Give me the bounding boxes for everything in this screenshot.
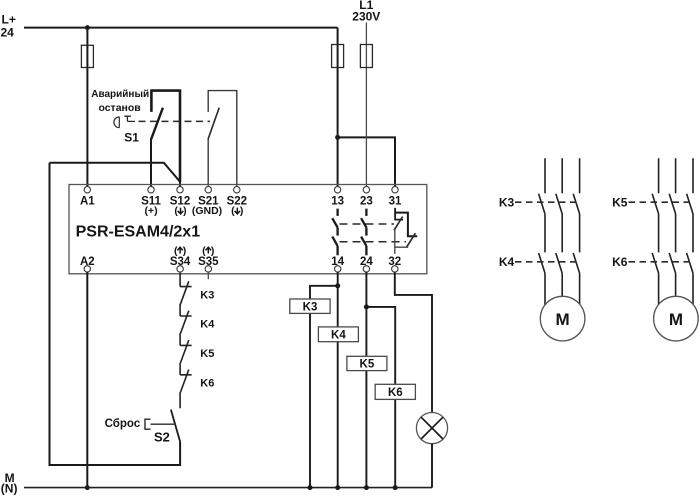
switch S1 contact-1 blade bbox=[151, 108, 163, 140]
node bus junction K5 bbox=[364, 485, 369, 490]
feedback contact K4 (NC) bbox=[180, 304, 192, 334]
motor M2 bbox=[654, 296, 699, 341]
terminal S12 bbox=[177, 187, 183, 193]
svg-text:24: 24 bbox=[360, 256, 373, 268]
node junction 14 branch bbox=[335, 283, 340, 288]
svg-text:23: 23 bbox=[360, 196, 373, 208]
terminal 32 bbox=[392, 266, 398, 272]
node junction A2 on bus bbox=[85, 485, 90, 490]
wire 14 drop bbox=[337, 272, 339, 286]
node junction feeding terminal 31 bbox=[335, 135, 340, 140]
relay contact 31-32 bypass path bbox=[395, 213, 417, 237]
svg-text:24: 24 bbox=[1, 25, 15, 39]
wire M(N) bus bbox=[24, 487, 432, 489]
svg-text:S2: S2 bbox=[154, 430, 170, 445]
wire 32 inner horizontal bbox=[395, 246, 408, 248]
svg-text:Сброс: Сброс bbox=[105, 418, 141, 430]
wire 13 supply drop bbox=[337, 28, 339, 187]
wire K3 dashed link bbox=[515, 201, 579, 203]
wire A1 supply drop bbox=[86, 28, 88, 187]
svg-text:S35: S35 bbox=[198, 256, 219, 268]
wire contact link dashed row 1 bbox=[340, 223, 395, 225]
wire 24 drop through coil K5 to bus bbox=[365, 272, 367, 488]
svg-text:230V: 230V bbox=[352, 10, 380, 24]
svg-text:K5: K5 bbox=[200, 348, 214, 360]
node bus junction K3 bbox=[308, 485, 313, 490]
wire L1 230V drop to terminal 23 bbox=[365, 23, 367, 187]
svg-text:S1: S1 bbox=[124, 131, 139, 145]
switch S2 blade bbox=[171, 410, 180, 442]
coil K3 bbox=[290, 299, 330, 313]
relay contact 31-32 blade 1 bbox=[394, 217, 403, 231]
wire 32 inner vertical bbox=[394, 230, 396, 254]
node bus junction K6 bbox=[393, 485, 398, 490]
svg-text:PSR-ESAM4/2x1: PSR-ESAM4/2x1 bbox=[76, 223, 201, 240]
relay contact 31-32 blade 2 bbox=[407, 233, 416, 247]
coil K5 bbox=[347, 356, 387, 370]
wire lamp to bus bbox=[431, 444, 433, 488]
terminal S35 bbox=[205, 266, 211, 272]
svg-text:A1: A1 bbox=[80, 196, 95, 208]
node bus junction K4 bbox=[335, 485, 340, 490]
svg-text:K6: K6 bbox=[388, 387, 403, 399]
svg-text:31: 31 bbox=[389, 196, 402, 208]
wire K6 dashed link bbox=[629, 261, 693, 263]
svg-text:A2: A2 bbox=[80, 256, 95, 268]
switch S2 actuator bbox=[145, 419, 174, 429]
lamp H1 bbox=[416, 413, 447, 444]
terminal S34 bbox=[177, 266, 183, 272]
wire L+ supply bus bbox=[24, 27, 338, 29]
svg-text:K6: K6 bbox=[200, 378, 214, 390]
svg-text:13: 13 bbox=[331, 196, 344, 208]
wire branch to terminal 31 bbox=[338, 137, 395, 186]
svg-text:M: M bbox=[556, 310, 570, 329]
switch S1 contact-2 blade bbox=[208, 108, 219, 140]
svg-text:K5: K5 bbox=[360, 359, 375, 371]
svg-text:(+): (+) bbox=[144, 205, 157, 217]
wire 32 to lamp bbox=[395, 272, 432, 413]
svg-text:M: M bbox=[669, 310, 683, 329]
svg-text:останов: останов bbox=[98, 102, 141, 114]
emergency stop mushroom head S1 bbox=[114, 117, 119, 128]
feedback contact K5 (NC) bbox=[180, 333, 192, 363]
wire S1 mechanical link (dashed) bbox=[139, 120, 211, 122]
wire branch to coil K3 bbox=[310, 286, 338, 488]
svg-text:S34: S34 bbox=[170, 256, 191, 268]
wire reset-loop feed into S12 (diagonal) bbox=[50, 163, 181, 187]
wire K4 dashed link bbox=[515, 261, 579, 263]
wire S2 return loop bbox=[50, 163, 181, 465]
motor branch 1 phase lines with contacts K3/K4 bbox=[539, 158, 580, 330]
terminal 14 bbox=[335, 266, 341, 272]
svg-text:14: 14 bbox=[331, 256, 344, 268]
relay contact 23-24 bbox=[361, 209, 366, 256]
terminal 23 bbox=[363, 187, 369, 193]
svg-text:(GND): (GND) bbox=[192, 205, 222, 217]
svg-text:K4: K4 bbox=[331, 330, 346, 342]
wire contact link dashed row 2 bbox=[340, 241, 407, 243]
relay contact 13-14 bbox=[332, 209, 337, 256]
svg-text:K5: K5 bbox=[612, 196, 628, 210]
svg-text:K6: K6 bbox=[612, 255, 628, 269]
node junction 24 branch bbox=[364, 304, 369, 309]
svg-text:K3: K3 bbox=[200, 289, 214, 301]
wire K5 dashed link bbox=[629, 201, 693, 203]
feedback contact K3 (NC) bbox=[180, 273, 192, 305]
relay box PSR-ESAM4/2x1 bbox=[69, 185, 427, 274]
terminal S11 bbox=[148, 187, 154, 193]
node junction on L+ bus feeding A1 bbox=[85, 25, 90, 30]
wire A2 to M(N) bus bbox=[86, 272, 88, 488]
terminal 24 bbox=[363, 266, 369, 272]
terminal A2 bbox=[84, 266, 90, 272]
wire S35 stub bbox=[207, 272, 209, 279]
svg-text:32: 32 bbox=[388, 256, 401, 268]
svg-text:K4: K4 bbox=[499, 255, 515, 269]
terminal S21 bbox=[205, 187, 211, 193]
wire S1 contact-2 loop (S21-S22) bbox=[208, 90, 237, 186]
wire S11 lower lead bbox=[150, 139, 152, 186]
coil K6 bbox=[375, 384, 415, 399]
feedback contact K6 (NC) bbox=[180, 363, 192, 393]
terminal 31 bbox=[392, 187, 398, 193]
fuse F3 bbox=[360, 45, 372, 68]
terminal 13 bbox=[334, 187, 340, 193]
wire 14 through coil K4 to bus bbox=[337, 286, 339, 488]
svg-text:Аварийный: Аварийный bbox=[91, 89, 149, 100]
relay contact 31-32 upper stub and hook bbox=[395, 208, 403, 221]
fuse F2 bbox=[332, 45, 344, 68]
wire S21 lower lead bbox=[207, 139, 209, 186]
coil K4 bbox=[318, 327, 358, 342]
fuse F1 bbox=[81, 45, 93, 67]
svg-text:K4: K4 bbox=[200, 319, 215, 331]
wire S1 contact-1 loop (S11-S12, thick) bbox=[150, 89, 180, 181]
wire branch to coil K6 bbox=[366, 307, 395, 488]
motor M1 bbox=[540, 296, 585, 341]
wire chain to S2 bbox=[179, 392, 181, 408]
svg-text:K3: K3 bbox=[303, 301, 318, 313]
svg-text:(N): (N) bbox=[1, 482, 18, 496]
terminal S22 bbox=[234, 187, 240, 193]
terminal A1 bbox=[84, 187, 90, 193]
motor branch 2 phase lines with contacts K5/K6 bbox=[652, 158, 693, 330]
emergency stop actuator bbox=[124, 116, 135, 121]
svg-text:K3: K3 bbox=[499, 196, 515, 210]
